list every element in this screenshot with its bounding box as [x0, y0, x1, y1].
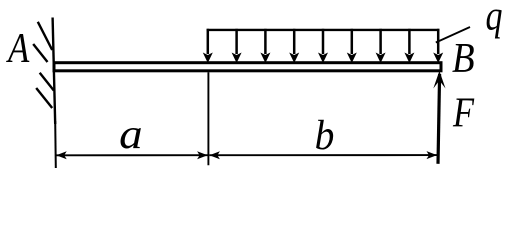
force F arrow	[433, 71, 445, 164]
svg-text:B: B	[452, 35, 475, 82]
dimension line b	[209, 151, 437, 159]
hatch 4	[36, 88, 52, 108]
load arrow 8	[404, 29, 414, 63]
load arrow 1	[203, 29, 213, 63]
dimension extension line at A	[54, 121, 57, 168]
load arrow 3	[260, 29, 270, 63]
hatch 3	[40, 73, 54, 91]
leader line to q	[436, 27, 470, 43]
svg-text:F: F	[452, 90, 474, 136]
svg-text:q: q	[486, 0, 503, 39]
load arrow 4	[289, 29, 299, 63]
beam	[54, 63, 441, 71]
load arrow 2	[232, 29, 242, 63]
svg-text:b: b	[315, 112, 335, 158]
dimension line a	[56, 151, 207, 159]
svg-text:A: A	[5, 26, 29, 72]
distributed load top line	[207, 29, 440, 31]
load arrow 6	[347, 29, 357, 63]
hatch 1	[38, 22, 52, 50]
load arrow 9	[433, 29, 443, 63]
dimension tick at a/b boundary	[207, 72, 209, 165]
svg-text:a: a	[119, 111, 143, 158]
load arrow 5	[318, 29, 328, 63]
load arrow 7	[376, 29, 386, 63]
hatch 2	[33, 44, 47, 62]
fixed support wall line	[53, 18, 56, 125]
